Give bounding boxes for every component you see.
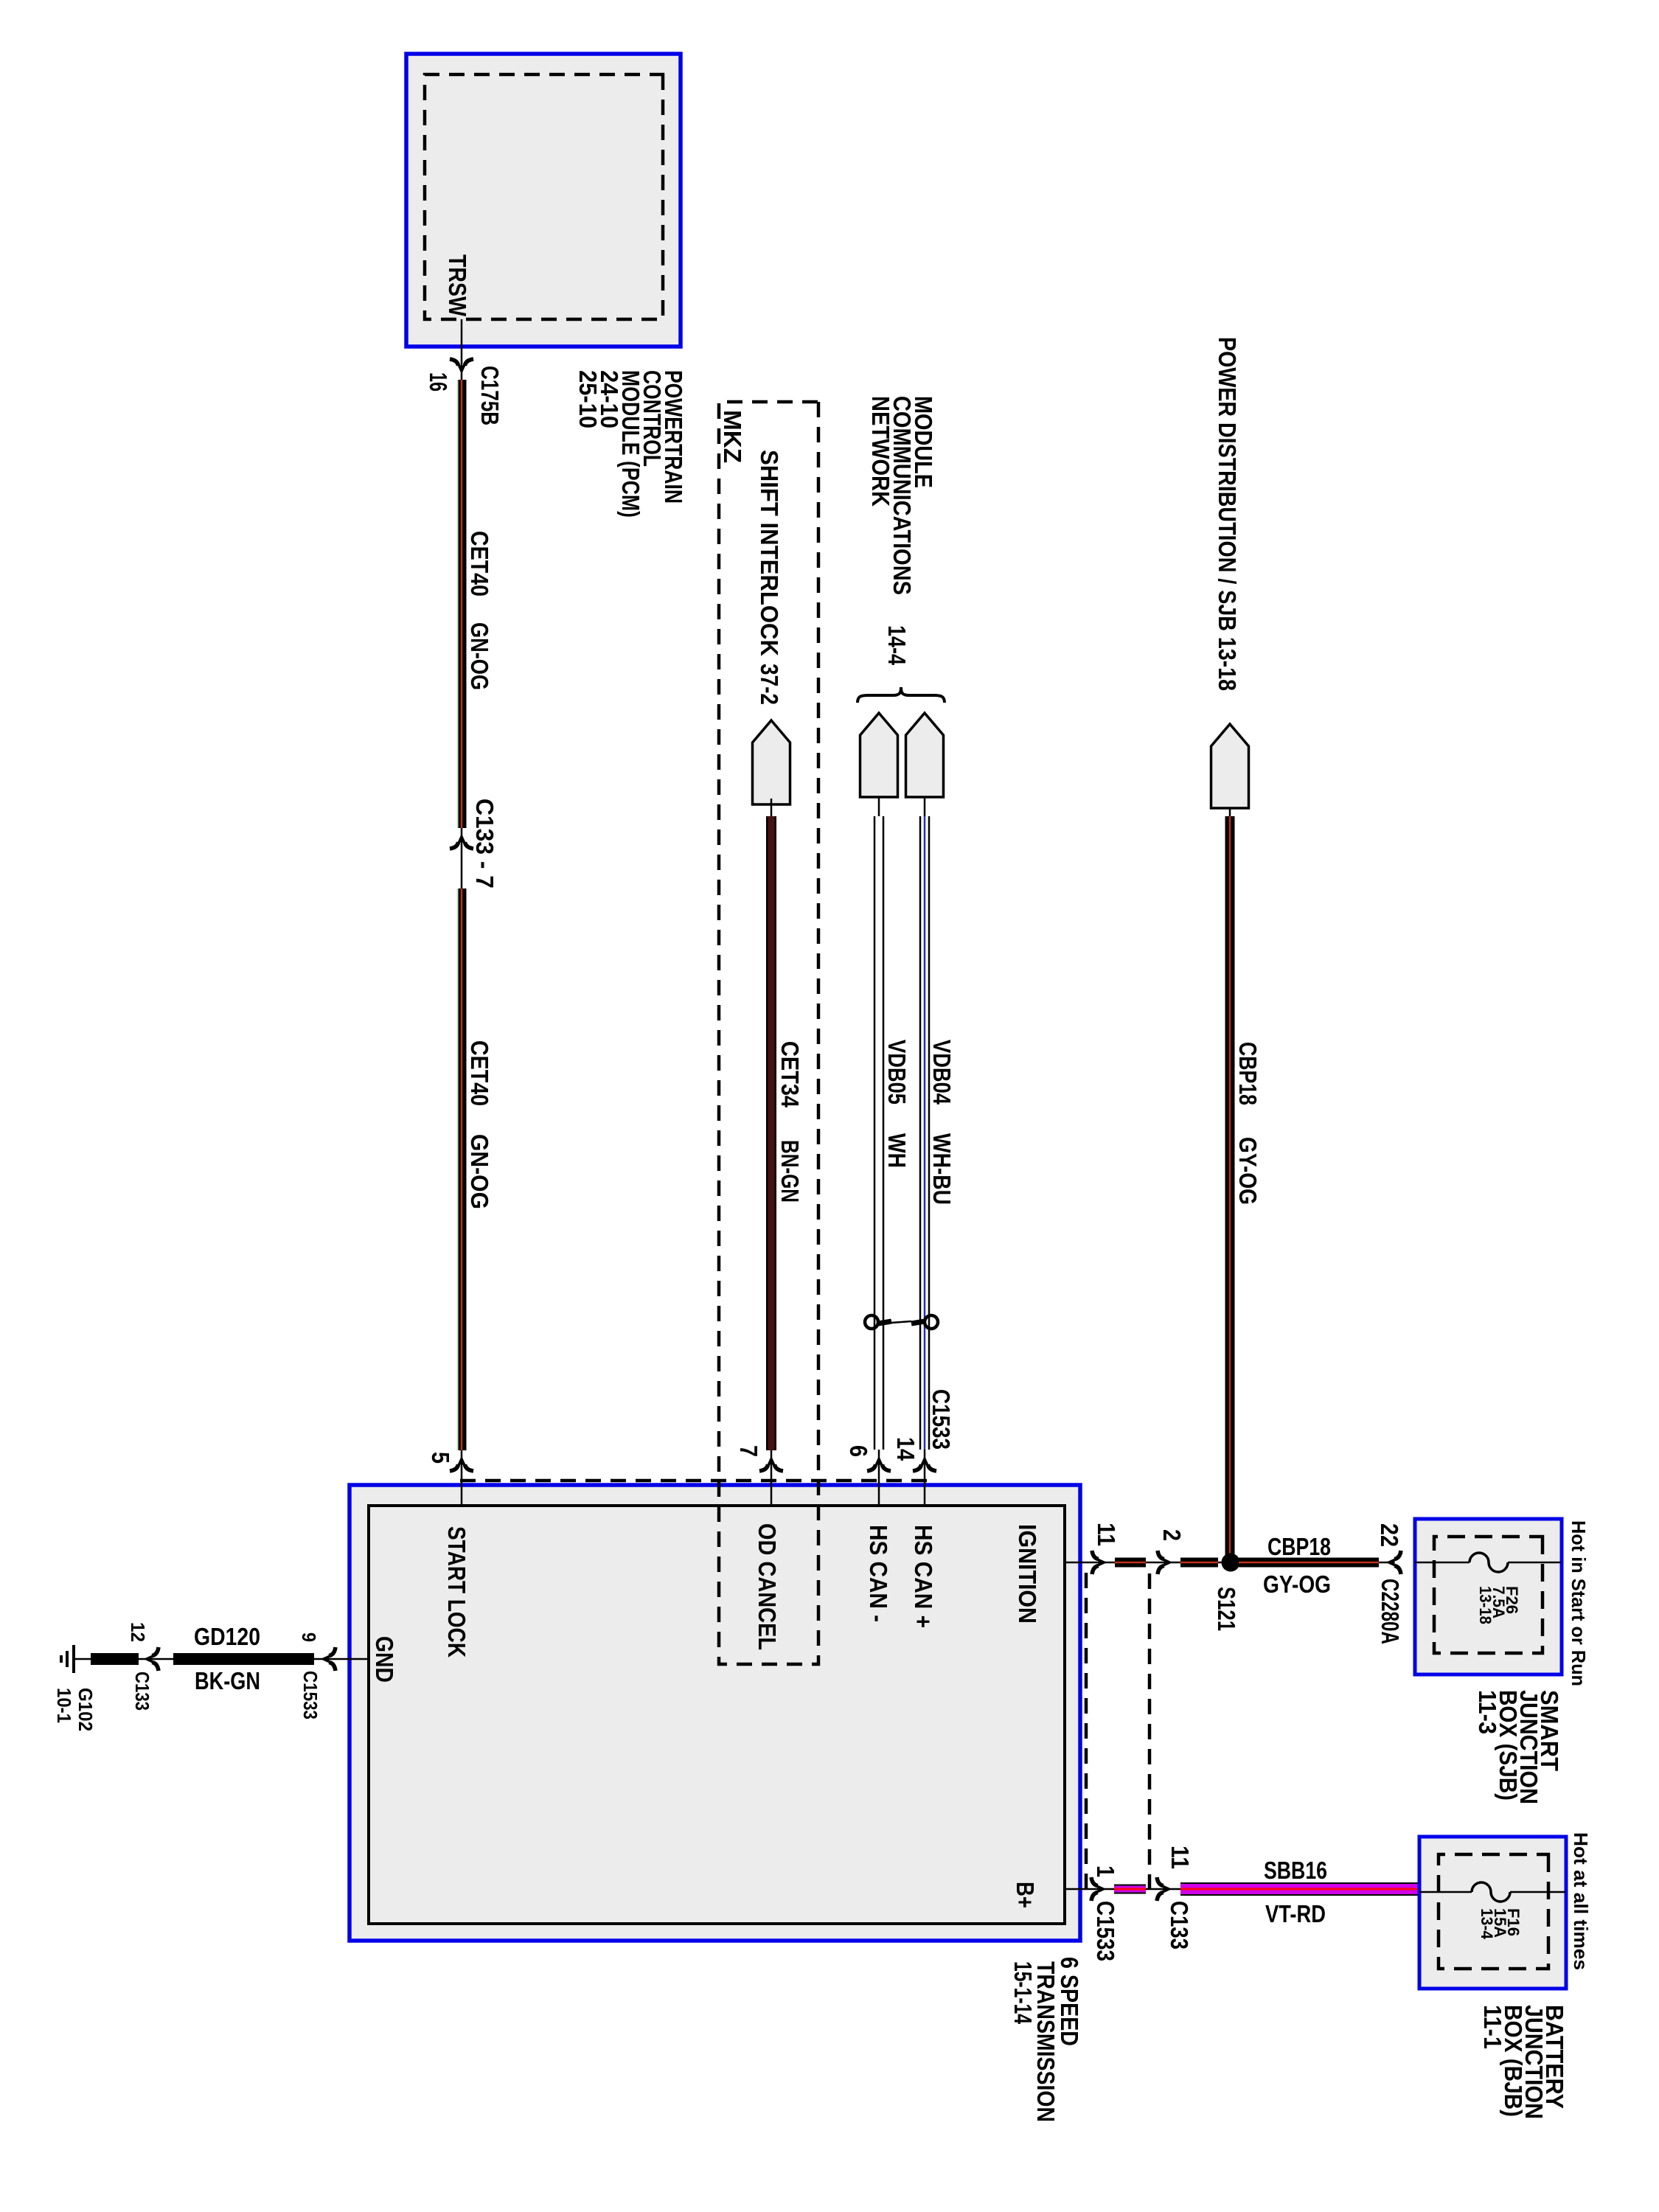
ground symbol G102: [61, 1645, 74, 1673]
svg-text:OD CANCEL: OD CANCEL: [754, 1523, 781, 1650]
svg-text:5: 5: [427, 1452, 454, 1464]
svg-text:HS CAN +: HS CAN +: [910, 1525, 937, 1628]
label VDB05: [883, 1040, 911, 1105]
wire B+ jumper segment: [1114, 1885, 1146, 1894]
fuse label F16 15A 13-4: [1478, 1908, 1523, 1940]
svg-text:14: 14: [892, 1437, 919, 1461]
label VDB04: [928, 1040, 956, 1105]
label S121: [1213, 1587, 1240, 1631]
pin 1 arrow C1533: [1091, 1877, 1107, 1901]
svg-text:C175B: C175B: [476, 366, 504, 425]
label GY-OG (feed): [1234, 1137, 1262, 1205]
svg-text:Hot in Start or Run: Hot in Start or Run: [1568, 1520, 1590, 1686]
label Hot in Start or Run: [1568, 1520, 1590, 1686]
off-page connector SHIFT INTERLOCK pentagon: [753, 720, 790, 804]
pin number 12: [127, 1622, 149, 1642]
svg-text:14-4: 14-4: [883, 625, 911, 666]
label C133 - 7: [471, 799, 498, 888]
svg-text:2: 2: [1158, 1529, 1186, 1541]
arrow 12 C133 at GND: [144, 1647, 159, 1671]
label CET40 (lower): [466, 1040, 493, 1106]
svg-text:C1533: C1533: [928, 1389, 955, 1450]
label C175B: [476, 366, 504, 425]
pin number 16: [425, 372, 452, 392]
svg-text:25-10: 25-10: [574, 370, 602, 428]
svg-text:GN-OG: GN-OG: [466, 622, 493, 690]
fuse F16 15A element: [1419, 1882, 1565, 1902]
svg-text:15-1-14: 15-1-14: [1009, 1961, 1037, 2024]
pin label GND: [371, 1636, 398, 1683]
module box TRSW (PCM) outline: [406, 54, 681, 347]
label MODULE COMMUNICATIONS NETWORK: [867, 396, 937, 595]
svg-text:CBP18: CBP18: [1267, 1533, 1331, 1560]
label CBP18 (feed): [1234, 1042, 1262, 1105]
pin number 7: [735, 1445, 762, 1457]
pin 6 arrow: [867, 1456, 891, 1472]
wire B+ pin 1 stub: [1065, 1888, 1421, 1891]
pin 7 arrow: [759, 1456, 783, 1472]
connector C133 - 7 arrow: [450, 834, 473, 849]
svg-text:MKZ: MKZ: [719, 410, 746, 463]
fuse box SMART JUNCTION BOX outline: [1415, 1519, 1562, 1674]
svg-text:SHIFT INTERLOCK: SHIFT INTERLOCK: [756, 450, 783, 656]
arrow 22 C2280A: [1386, 1551, 1402, 1574]
svg-text:C1533: C1533: [1092, 1901, 1119, 1961]
svg-text:HS CAN -: HS CAN -: [865, 1525, 892, 1622]
svg-text:CET40: CET40: [466, 1040, 493, 1106]
connector C175B arrow at pin 16: [450, 359, 473, 375]
off-page connector VDB04 pentagon: [906, 713, 944, 797]
svg-text:VDB04: VDB04: [928, 1040, 956, 1105]
svg-text:IGNITION: IGNITION: [1014, 1524, 1041, 1624]
wire GND pin 9 stub: [74, 1658, 369, 1660]
arrow 2 C133: [1158, 1551, 1173, 1574]
svg-text:Hot at all times: Hot at all times: [1570, 1832, 1592, 1970]
wire CBP18 segment to splice: [1180, 1558, 1218, 1568]
svg-text:VDB05: VDB05: [883, 1040, 911, 1105]
svg-text:10-1: 10-1: [53, 1688, 75, 1723]
label POWER DISTRIBUTION / SJB 13-18: [1214, 337, 1241, 691]
label MKZ: [719, 410, 746, 463]
svg-text:16: 16: [425, 372, 452, 392]
svg-text:1: 1: [1092, 1865, 1119, 1877]
wire CBP18 GY-OG splice to SJB fuse: [1239, 1558, 1379, 1568]
label C2280A: [1377, 1579, 1404, 1644]
pin number 6: [845, 1445, 872, 1457]
pin label TRSW: [444, 254, 471, 317]
label C1533 at B+: [1092, 1901, 1119, 1961]
label GN-OG (lower): [466, 1134, 493, 1209]
label SMART JUNCTION BOX (SJB) 11-3: [1474, 1690, 1563, 1804]
wire CET40 GN-OG segment 2: [458, 888, 462, 1450]
svg-text:C133: C133: [1166, 1901, 1193, 1950]
off-page connector POWER DISTRIBUTION pentagon: [1211, 724, 1249, 808]
wire GD120 BK-GN: [173, 1653, 314, 1665]
svg-text:C133: C133: [131, 1672, 153, 1711]
label 14-4: [883, 625, 911, 666]
svg-text:GN-OG: GN-OG: [466, 1134, 493, 1209]
svg-text:S121: S121: [1213, 1587, 1240, 1631]
svg-text:BK-GN: BK-GN: [195, 1667, 260, 1694]
wire SBB16 VT-RD: [1180, 1882, 1421, 1896]
svg-text:7: 7: [735, 1445, 762, 1457]
svg-text:CBP18: CBP18: [1234, 1042, 1262, 1105]
label C133 at GND: [131, 1672, 153, 1711]
svg-text:START LOCK: START LOCK: [443, 1526, 470, 1658]
svg-text:11: 11: [1093, 1523, 1120, 1546]
svg-text:GY-OG: GY-OG: [1234, 1137, 1262, 1205]
label SHIFT INTERLOCK: [756, 450, 783, 656]
label G102 10-1: [53, 1688, 97, 1731]
svg-text:C2280A: C2280A: [1377, 1579, 1404, 1644]
wire ground segment: [91, 1653, 139, 1665]
wire IGNITION pin 11 stub: [1065, 1562, 1391, 1564]
connector C133 dashed line (ignition to B+): [1148, 1573, 1152, 1889]
svg-text:11-3: 11-3: [1474, 1690, 1501, 1734]
label WH: [883, 1133, 911, 1168]
pin label OD CANCEL inside MKZ dashed box: [754, 1523, 781, 1650]
svg-text:11-1: 11-1: [1479, 2005, 1506, 2049]
pin label HS CAN -: [865, 1525, 892, 1622]
label GY-OG (vertical): [1263, 1571, 1331, 1598]
label CBP18 (vertical): [1267, 1533, 1331, 1560]
label 6 SPEED TRANSMISSION 15-1-14: [1009, 1957, 1083, 2122]
pin number 5: [427, 1452, 454, 1464]
label C133 at B+: [1166, 1901, 1193, 1950]
svg-text:WH-BU: WH-BU: [928, 1133, 956, 1205]
label VT-RD (vertical): [1265, 1900, 1326, 1927]
wire stub from TRSW box pin 16: [461, 319, 463, 1506]
label GN-OG (upper): [466, 622, 493, 690]
arrow 11 C133 at B+: [1157, 1877, 1172, 1901]
svg-text:GND: GND: [371, 1636, 398, 1683]
wire VDB04 WH-BU (white-blue twisted pair line): [920, 797, 929, 1506]
label BN-GN: [776, 1140, 804, 1203]
svg-text:POWER DISTRIBUTION / SJB 13-18: POWER DISTRIBUTION / SJB 13-18: [1214, 337, 1241, 691]
off-page connector VDB05 pentagon: [860, 713, 898, 797]
svg-text:WH: WH: [883, 1133, 911, 1168]
label Hot at all times: [1570, 1832, 1592, 1970]
svg-text:CET34: CET34: [776, 1041, 804, 1108]
svg-text:C1533: C1533: [299, 1671, 321, 1719]
pin number 22: [1376, 1523, 1403, 1547]
svg-text:TRSW: TRSW: [444, 254, 471, 317]
svg-text:CET40: CET40: [466, 531, 493, 597]
svg-text:37-2: 37-2: [756, 664, 783, 705]
wire CET34 BN-GN: [771, 799, 773, 1506]
label C1533 at pin 14: [928, 1389, 955, 1450]
label 37-2: [756, 664, 783, 705]
wire CET40 GN-OG segment 1: [458, 380, 462, 828]
svg-text:6: 6: [845, 1445, 872, 1457]
svg-text:GD120: GD120: [194, 1623, 260, 1650]
svg-text:GY-OG: GY-OG: [1263, 1571, 1331, 1598]
connector C1533 dashed line at transmission pins: [457, 1479, 927, 1483]
fuse F26 7.5A element: [1415, 1553, 1561, 1572]
pin number 14: [892, 1437, 919, 1461]
svg-text:NETWORK: NETWORK: [867, 396, 894, 507]
svg-text:C133 - 7: C133 - 7: [471, 799, 498, 888]
splice S121: [1222, 1554, 1240, 1572]
fuse label F26 7.5A 13-18: [1476, 1586, 1521, 1624]
pin 9 arrow C1533: [321, 1647, 336, 1671]
pin 11 arrow C1533: [1092, 1551, 1107, 1574]
label GD120 (vertical): [194, 1623, 260, 1650]
svg-text:13-4: 13-4: [1478, 1908, 1496, 1940]
brace bracket for network wires: [858, 687, 945, 703]
pin 5 arrow: [450, 1456, 473, 1472]
pin 14 arrow: [913, 1456, 936, 1472]
svg-text:B+: B+: [1012, 1882, 1039, 1908]
svg-text:13-18: 13-18: [1476, 1586, 1495, 1624]
option box MKZ dashed outline: [719, 402, 818, 1664]
svg-text:G102: G102: [74, 1688, 97, 1731]
pin label HS CAN +: [910, 1525, 937, 1628]
svg-text:VT-RD: VT-RD: [1265, 1900, 1326, 1927]
pin number 1 (C1533): [1092, 1865, 1119, 1877]
module box 6 SPEED TRANSMISSION outline: [349, 1485, 1080, 1941]
wire CBP18 GY-OG feed to S121: [1229, 808, 1231, 1558]
svg-text:22: 22: [1376, 1523, 1403, 1547]
twisted pair marker: [865, 1315, 938, 1329]
svg-text:9: 9: [298, 1632, 320, 1642]
wire CBP18 segment between connectors: [1115, 1558, 1146, 1568]
fuse box BATTERY JUNCTION BOX outline: [1419, 1837, 1566, 1989]
label POWERTRAIN CONTROL MODULE (PCM) 24-10 25-10: [574, 370, 687, 518]
label CET34: [776, 1041, 804, 1108]
svg-text:11: 11: [1166, 1846, 1194, 1869]
label CET40 (upper): [466, 531, 493, 597]
label SBB16 (vertical): [1264, 1857, 1327, 1884]
label BATTERY JUNCTION BOX (BJB) 11-1: [1479, 2005, 1568, 2119]
label WH-BU: [928, 1133, 956, 1205]
pin number 11 (C133): [1166, 1846, 1194, 1869]
connector C1533 dashed line (ignition to B+): [1085, 1573, 1088, 1889]
svg-text:12: 12: [127, 1622, 149, 1642]
wire VDB05 WH (white twisted pair line): [874, 797, 883, 1506]
pin label START LOCK: [443, 1526, 470, 1658]
pin label B+: [1012, 1882, 1039, 1908]
pin number 2 (C133): [1158, 1529, 1186, 1541]
pin number 11 (C1533): [1093, 1523, 1120, 1546]
svg-text:SBB16: SBB16: [1264, 1857, 1327, 1884]
label BK-GN (vertical): [195, 1667, 260, 1694]
pin number 9: [298, 1632, 320, 1642]
pin label IGNITION: [1014, 1524, 1041, 1624]
svg-text:BN-GN: BN-GN: [776, 1140, 804, 1203]
label C1533 at GND: [299, 1671, 321, 1719]
